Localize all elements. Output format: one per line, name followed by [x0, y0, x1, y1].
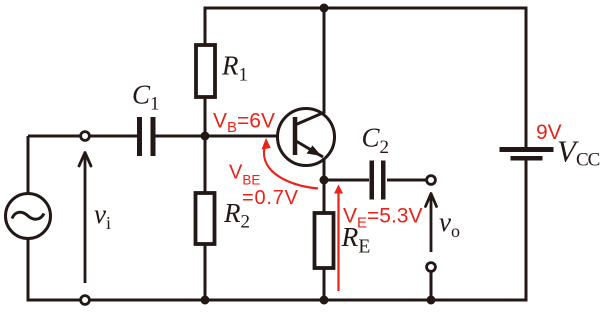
svg-text:VB=6V: VB=6V: [213, 110, 275, 137]
svg-text:VCC: VCC: [557, 134, 600, 171]
arrow VE measurement: [334, 185, 343, 292]
terminal output top: [427, 176, 436, 185]
arrow vo measurement: [426, 194, 437, 253]
node RE bottom junction: [320, 296, 329, 305]
wire input terminal to C1: [89, 135, 137, 138]
node output bottom junction: [427, 296, 436, 305]
node R2 bottom junction: [201, 296, 210, 305]
resistor R1: [196, 45, 215, 97]
wire emitter lead: [323, 158, 326, 213]
wire top rail with R1 lead and Vcc lead: [205, 8, 526, 147]
wire C2 to output terminal: [387, 179, 427, 182]
battery VCC: [500, 147, 554, 161]
node collector junction on top rail: [320, 4, 329, 13]
wire output bottom lead: [430, 271, 433, 300]
arrow vi measurement: [79, 153, 91, 284]
terminal output bottom: [427, 263, 436, 272]
wire collector lead: [323, 8, 326, 113]
svg-text:9V: 9V: [536, 121, 562, 144]
resistor RE: [315, 213, 334, 268]
svg-text:C2: C2: [362, 123, 390, 159]
wire RE bottom lead: [323, 268, 326, 300]
wire R2 bottom lead: [204, 244, 207, 300]
capacitor C2: [370, 161, 386, 200]
wire left loop down to source: [27, 136, 30, 194]
arrow VBE curved: [262, 138, 319, 189]
svg-text:C1: C1: [132, 80, 160, 115]
wire source to bottom rail and bottom rail and Vcc bottom lead: [28, 160, 526, 300]
wire emitter to C2: [324, 179, 369, 182]
transistor Q1: [278, 109, 335, 166]
terminal input top: [81, 132, 90, 141]
svg-text:R1: R1: [221, 51, 248, 86]
svg-text:VBE: VBE: [229, 162, 260, 188]
source AC generator: [6, 194, 51, 239]
terminal input bottom: [81, 296, 90, 305]
svg-text:VE=5.3V: VE=5.3V: [343, 205, 423, 232]
svg-text:vo: vo: [439, 207, 460, 241]
svg-text:vi: vi: [94, 199, 111, 233]
capacitor C1: [137, 117, 156, 156]
wire R1 bottom lead through base junction to R2: [204, 97, 207, 193]
resistor R2: [196, 193, 215, 244]
wire input left segment: [28, 135, 81, 138]
node base junction: [201, 132, 210, 141]
node emitter junction: [320, 176, 329, 185]
wire C1 to base: [155, 135, 295, 138]
svg-text:=0.7V: =0.7V: [242, 187, 299, 209]
